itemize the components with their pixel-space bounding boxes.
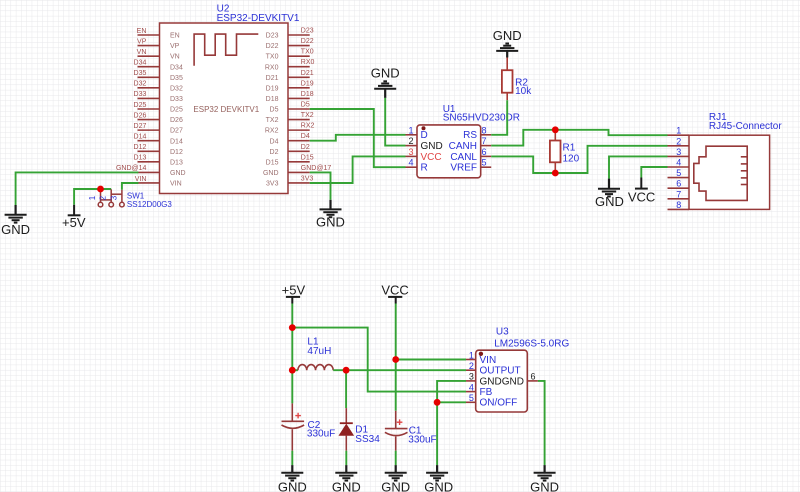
RJ1 pin 7 xyxy=(668,198,690,200)
wire C2 to ground xyxy=(291,451,293,465)
svg-text:VCC: VCC xyxy=(628,189,655,204)
svg-text:2: 2 xyxy=(676,136,681,146)
U2 left pin D32 xyxy=(138,87,160,89)
ground (left of schematic) xyxy=(15,205,17,215)
RJ1 pin 2 xyxy=(668,145,690,147)
svg-text:EN: EN xyxy=(137,28,147,35)
svg-text:EN: EN xyxy=(170,33,180,40)
U2 right pin D15 xyxy=(288,161,310,163)
svg-text:1: 1 xyxy=(408,125,413,135)
svg-text:330uF: 330uF xyxy=(307,429,335,440)
U2 right pin D18 xyxy=(288,97,310,99)
svg-text:TX0: TX0 xyxy=(266,54,279,61)
svg-text:RX2: RX2 xyxy=(301,123,315,130)
svg-text:VN: VN xyxy=(137,49,147,56)
svg-text:RX0: RX0 xyxy=(301,59,315,66)
U2 left pin D12 xyxy=(138,150,160,152)
antenna squiggle inside U2 xyxy=(194,34,258,66)
U2 right pin D21 xyxy=(288,76,310,78)
wire CANH to RJ45 pin1 xyxy=(491,130,667,146)
svg-text:D34: D34 xyxy=(134,60,147,67)
svg-text:D23: D23 xyxy=(266,33,279,40)
wire D5 to U1.R xyxy=(310,109,406,167)
svg-text:8: 8 xyxy=(676,200,681,210)
svg-text:6: 6 xyxy=(482,147,487,157)
svg-text:RJ45-Connector: RJ45-Connector xyxy=(709,121,782,132)
U2 left pin VIN xyxy=(138,182,160,184)
svg-text:2: 2 xyxy=(99,195,108,200)
wire GND@14 to ground xyxy=(16,172,139,205)
svg-text:330uF: 330uF xyxy=(408,435,436,446)
svg-text:D25: D25 xyxy=(134,102,147,109)
svg-text:D2: D2 xyxy=(301,144,310,151)
svg-text:SS34: SS34 xyxy=(355,434,380,445)
svg-text:D15: D15 xyxy=(266,159,279,166)
svg-text:RX0: RX0 xyxy=(265,64,279,71)
U2 left pin D34 xyxy=(138,66,160,68)
U1 pin 7 CANH xyxy=(481,145,492,147)
svg-text:120: 120 xyxy=(563,154,580,165)
U2 right pin D2 xyxy=(288,150,310,152)
U2 left pin D13 xyxy=(138,161,160,163)
U2 right pin 3V3 xyxy=(288,182,310,184)
svg-text:5: 5 xyxy=(482,158,487,168)
svg-text:D34: D34 xyxy=(170,64,183,71)
wire VCC to U3.VIN xyxy=(396,359,466,361)
svg-text:D: D xyxy=(421,130,428,141)
svg-text:GND: GND xyxy=(530,479,559,492)
junction dot L1/D1 xyxy=(343,367,350,374)
U2 left pin D35 xyxy=(138,76,160,78)
wire D1 to ground xyxy=(345,451,347,465)
svg-text:D12: D12 xyxy=(170,149,183,156)
svg-text:47uH: 47uH xyxy=(307,346,331,357)
svg-text:5: 5 xyxy=(469,393,474,403)
svg-text:10k: 10k xyxy=(515,86,532,97)
svg-text:4: 4 xyxy=(408,158,413,168)
svg-text:GND: GND xyxy=(493,28,522,43)
svg-text:GND: GND xyxy=(424,479,453,492)
svg-text:OUTPUT: OUTPUT xyxy=(480,366,521,377)
U2 right pin TX2 xyxy=(288,119,310,121)
svg-text:7: 7 xyxy=(482,136,487,146)
svg-text:7: 7 xyxy=(676,189,681,199)
svg-text:ESP32 DEVKITV1: ESP32 DEVKITV1 xyxy=(193,105,259,114)
U3 pin 6 xyxy=(527,380,538,382)
U2 right pin RX0 xyxy=(288,66,310,68)
U1 pin 2 GND xyxy=(406,145,418,147)
svg-text:2: 2 xyxy=(469,361,474,371)
wire U3 pin6 to ground xyxy=(538,381,545,465)
U2 right pin RX2 xyxy=(288,129,310,131)
junction dot ON/OFF xyxy=(434,399,441,406)
svg-text:1: 1 xyxy=(676,126,681,136)
svg-text:VIN: VIN xyxy=(170,181,182,188)
svg-text:CANH: CANH xyxy=(449,141,477,152)
svg-text:U3: U3 xyxy=(496,327,509,338)
svg-text:D4: D4 xyxy=(270,138,279,145)
U3 pin 3 GNDGND xyxy=(466,380,476,382)
svg-text:D19: D19 xyxy=(301,80,314,87)
U3 pin 1 VIN xyxy=(466,359,476,361)
ground (D1) xyxy=(345,465,347,473)
svg-text:D5: D5 xyxy=(270,107,279,114)
svg-text:RS: RS xyxy=(463,130,477,141)
connector RJ1 body xyxy=(689,135,770,209)
ground (below U2) xyxy=(329,200,331,210)
U3 pin1 marker dot xyxy=(479,352,483,356)
ground (C2) xyxy=(291,465,293,473)
wire U3.GNDGND to ground xyxy=(437,381,466,465)
U3 pin 5 ON/OFF xyxy=(466,401,476,403)
IC U2 ESP32-DEVKITV1 body xyxy=(160,23,289,194)
svg-text:VP: VP xyxy=(137,38,147,45)
svg-text:VP: VP xyxy=(170,43,180,50)
svg-text:+5V: +5V xyxy=(62,215,86,230)
svg-text:ON/OFF: ON/OFF xyxy=(480,398,518,409)
ground (above R2) xyxy=(506,51,508,58)
U1 pin 4 R xyxy=(406,166,418,168)
svg-text:5: 5 xyxy=(676,168,681,178)
junction dot +5V/FB branch xyxy=(289,324,296,331)
svg-text:D4: D4 xyxy=(301,133,310,140)
svg-text:D35: D35 xyxy=(170,75,183,82)
svg-text:D2: D2 xyxy=(270,149,279,156)
U1 pin 3 VCC xyxy=(406,155,418,157)
svg-text:D15: D15 xyxy=(301,154,314,161)
svg-text:D22: D22 xyxy=(266,43,279,50)
U3 pin 2 OUTPUT xyxy=(466,369,476,371)
svg-text:D14: D14 xyxy=(170,138,183,145)
svg-text:GND: GND xyxy=(263,170,279,177)
svg-text:GND: GND xyxy=(278,479,307,492)
power VCC (near RJ45) xyxy=(640,178,642,189)
svg-text:D19: D19 xyxy=(266,85,279,92)
svg-text:D33: D33 xyxy=(134,91,147,98)
svg-text:D21: D21 xyxy=(301,70,314,77)
wire VIN to SW1 xyxy=(122,183,138,190)
svg-text:RX2: RX2 xyxy=(265,128,279,135)
RJ1 pin 8 xyxy=(668,208,690,210)
U2 left pin VP xyxy=(138,45,160,47)
RJ1 pin 6 xyxy=(668,187,690,189)
svg-text:GND: GND xyxy=(371,66,400,81)
svg-text:1: 1 xyxy=(88,195,97,200)
svg-text:TX2: TX2 xyxy=(301,112,314,119)
U1 pin1 marker dot xyxy=(422,126,426,130)
U2 left pin D25 xyxy=(138,108,160,110)
RJ1 pin 5 xyxy=(668,177,690,179)
svg-text:D12: D12 xyxy=(134,144,147,151)
svg-text:GND: GND xyxy=(170,170,186,177)
ground (RJ45 pin3) xyxy=(608,179,610,189)
resistor R2 xyxy=(506,58,508,71)
IC U1 SN65HVD230DR body xyxy=(417,125,481,178)
wire U3.ON/OFF join xyxy=(437,401,466,403)
svg-text:2: 2 xyxy=(408,136,413,146)
wire 3V3 to U1.VCC xyxy=(310,156,406,183)
wire +5V to SW1 xyxy=(74,189,111,205)
U2 left pin GND@14 xyxy=(138,171,160,173)
svg-text:GND: GND xyxy=(332,479,361,492)
svg-text:LM2596S-5.0RG: LM2596S-5.0RG xyxy=(494,339,569,350)
U2 right pin D5 xyxy=(288,108,310,110)
svg-text:GND: GND xyxy=(316,214,345,229)
svg-text:FB: FB xyxy=(480,387,493,398)
svg-text:D21: D21 xyxy=(266,75,279,82)
power +5V (near SW1) xyxy=(73,205,75,216)
U1 pin 5 VREF xyxy=(481,166,492,168)
svg-text:GND: GND xyxy=(421,141,443,152)
svg-text:GND: GND xyxy=(381,479,410,492)
U2 right pin TX0 xyxy=(288,55,310,57)
wire CANL to RJ45 pin2 xyxy=(491,146,667,173)
svg-text:TX2: TX2 xyxy=(266,117,279,124)
svg-text:VCC: VCC xyxy=(381,282,408,297)
svg-text:VIN: VIN xyxy=(135,176,147,183)
RJ1 pin 4 xyxy=(668,166,690,168)
svg-text:GND@14: GND@14 xyxy=(116,165,147,172)
capacitor C1 xyxy=(395,411,397,429)
svg-text:D18: D18 xyxy=(301,91,314,98)
svg-text:3: 3 xyxy=(469,372,474,382)
capacitor C2 xyxy=(291,403,293,421)
U3 pin 4 FB xyxy=(466,391,476,393)
svg-text:3V3: 3V3 xyxy=(266,181,279,188)
U2 right pin D23 xyxy=(288,34,310,36)
wire +5V to U3.FB xyxy=(292,328,466,392)
RJ1 pin 3 xyxy=(668,155,690,157)
wire ground to U1.GND xyxy=(385,98,405,146)
svg-text:6: 6 xyxy=(676,179,681,189)
svg-text:GND: GND xyxy=(595,194,624,209)
svg-text:SS12D00G3: SS12D00G3 xyxy=(127,200,172,209)
svg-text:D26: D26 xyxy=(170,117,183,124)
svg-text:D32: D32 xyxy=(134,81,147,88)
ground (U3 pin6) xyxy=(543,465,545,473)
svg-text:D22: D22 xyxy=(301,38,314,45)
U2 left pin D33 xyxy=(138,97,160,99)
IC U3 LM2596S-5.0RG body xyxy=(476,350,528,412)
svg-text:D32: D32 xyxy=(170,85,183,92)
svg-text:4: 4 xyxy=(676,158,681,168)
svg-text:3V3: 3V3 xyxy=(301,175,314,182)
wire L1 to U3.OUTPUT xyxy=(333,369,466,371)
svg-text:3: 3 xyxy=(408,147,413,157)
U2 left pin D27 xyxy=(138,129,160,131)
U2 right pin D22 xyxy=(288,45,310,47)
svg-text:D35: D35 xyxy=(134,70,147,77)
svg-text:D27: D27 xyxy=(134,123,147,130)
U2 right pin D19 xyxy=(288,87,310,89)
junction dot at SW1 pin1 xyxy=(97,186,104,193)
svg-text:SN65HVD230DR: SN65HVD230DR xyxy=(443,113,520,124)
wire RJ45 pin4 to VCC xyxy=(641,167,667,178)
junction dot +5V/L1 xyxy=(289,367,296,374)
junction dot R1 bottom xyxy=(552,170,559,177)
U2 right pin D4 xyxy=(288,140,310,142)
svg-text:+5V: +5V xyxy=(282,282,306,297)
svg-text:1: 1 xyxy=(469,350,474,360)
junction dot VCC/VIN xyxy=(392,356,399,363)
svg-text:D26: D26 xyxy=(134,112,147,119)
ground (above U1) xyxy=(384,89,386,98)
U2 left pin EN xyxy=(138,34,160,36)
svg-text:D25: D25 xyxy=(170,107,183,114)
wire VCC rail down to C1 xyxy=(395,304,397,411)
svg-text:3: 3 xyxy=(109,195,118,200)
wire D4 to U1.D xyxy=(310,135,406,141)
ground (C1) xyxy=(395,465,397,473)
U1 pin 1 D xyxy=(406,134,418,136)
U2 left pin VN xyxy=(138,55,160,57)
svg-text:VIN: VIN xyxy=(480,355,497,366)
svg-text:D23: D23 xyxy=(301,28,314,35)
inductor L1 xyxy=(292,369,298,371)
wire RJ45 pin3 to ground xyxy=(609,156,668,178)
U1 pin 6 CANL xyxy=(481,155,492,157)
svg-text:3: 3 xyxy=(676,147,681,157)
U2 left pin D26 xyxy=(138,119,160,121)
wire GND@17 to ground xyxy=(310,172,331,199)
svg-text:GNDGND: GNDGND xyxy=(480,376,524,387)
svg-text:R: R xyxy=(421,163,428,174)
svg-text:TX0: TX0 xyxy=(301,49,314,56)
svg-text:D14: D14 xyxy=(134,134,147,141)
U1 pin 8 RS xyxy=(481,134,492,136)
svg-text:VN: VN xyxy=(170,54,180,61)
svg-text:CANL: CANL xyxy=(450,152,477,163)
svg-text:ESP32-DEVKITV1: ESP32-DEVKITV1 xyxy=(217,13,300,24)
svg-text:GND@17: GND@17 xyxy=(301,165,332,172)
U2 right pin GND@17 xyxy=(288,171,310,173)
junction dot R1 top xyxy=(552,126,559,133)
resistor R1 xyxy=(554,130,556,141)
wire R2 to U1.RS xyxy=(491,100,507,135)
svg-text:D13: D13 xyxy=(134,155,147,162)
U2 left pin D14 xyxy=(138,140,160,142)
svg-text:D33: D33 xyxy=(170,96,183,103)
svg-text:R1: R1 xyxy=(563,143,576,154)
svg-text:D18: D18 xyxy=(266,96,279,103)
ground (U3 GND) xyxy=(436,465,438,473)
svg-text:D27: D27 xyxy=(170,128,183,135)
diode D1 xyxy=(345,370,347,408)
svg-text:4: 4 xyxy=(469,382,474,392)
wire C1 to ground xyxy=(395,451,397,465)
svg-text:8: 8 xyxy=(482,125,487,135)
wire +5V rail down xyxy=(291,304,293,404)
svg-text:VCC: VCC xyxy=(421,152,442,163)
RJ1 pin 1 xyxy=(668,134,690,136)
RJ45 jack symbol xyxy=(694,146,747,200)
svg-text:D13: D13 xyxy=(170,159,183,166)
svg-text:GND: GND xyxy=(1,222,30,237)
svg-text:D5: D5 xyxy=(301,101,310,108)
svg-text:VREF: VREF xyxy=(450,163,477,174)
svg-text:6: 6 xyxy=(531,372,536,382)
switch SW1 xyxy=(98,189,124,207)
